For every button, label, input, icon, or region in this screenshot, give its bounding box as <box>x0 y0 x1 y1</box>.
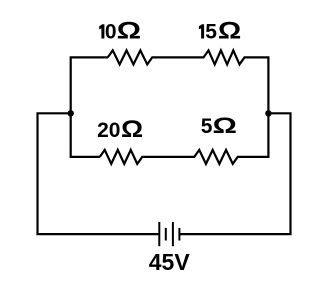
svg-text:0: 0 <box>105 21 117 44</box>
svg-text:45V: 45V <box>149 249 191 275</box>
svg-text:Ω: Ω <box>218 17 241 44</box>
svg-text:5: 5 <box>201 115 213 138</box>
svg-text:Ω: Ω <box>117 17 142 44</box>
svg-text:5: 5 <box>205 21 217 44</box>
svg-text:Ω: Ω <box>212 113 236 138</box>
svg-text:Ω: Ω <box>121 117 143 143</box>
svg-text:20: 20 <box>97 119 120 142</box>
